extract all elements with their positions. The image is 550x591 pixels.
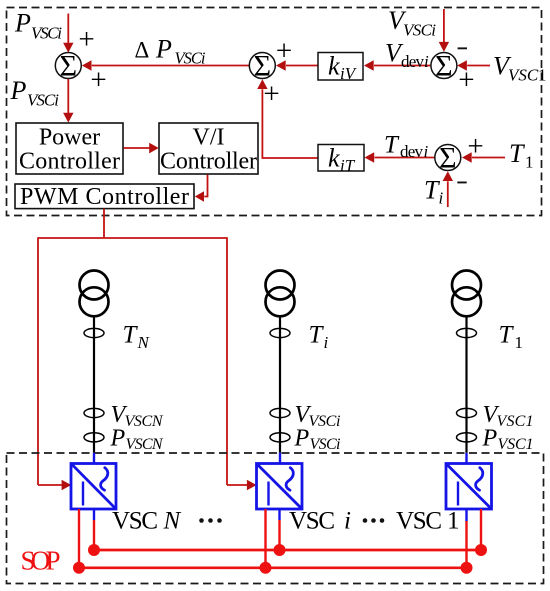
measurement point P_VSCN xyxy=(84,433,104,442)
svg-text:P: P xyxy=(110,426,126,452)
minus sign at S3 top input xyxy=(458,47,467,49)
svg-text:VSCi: VSCi xyxy=(27,91,59,110)
wire kiT output up into S2 bottom xyxy=(257,79,318,158)
svg-text:VSCi: VSCi xyxy=(310,436,341,453)
svg-text:iT: iT xyxy=(340,156,356,175)
wire T_1 into S4 xyxy=(462,152,505,163)
svg-text:T: T xyxy=(509,139,525,168)
measurement point V_VSCN xyxy=(84,408,104,417)
VSC N dc stub to lower bus xyxy=(78,509,80,568)
svg-text:Controller: Controller xyxy=(19,149,120,175)
feeder wire branch 1 xyxy=(465,316,467,453)
gate-feed wire right vertical run xyxy=(226,237,228,485)
svg-text:1: 1 xyxy=(538,66,547,85)
svg-text:VSC: VSC xyxy=(508,66,539,85)
wire Power Controller to V/I Controller xyxy=(124,143,159,154)
label T_i xyxy=(424,176,444,208)
label V_VSCN xyxy=(111,402,164,430)
svg-text:P: P xyxy=(10,76,27,105)
junction dot lower bus at VSC i xyxy=(260,562,272,574)
svg-text:i: i xyxy=(439,189,444,208)
svg-text:VSCi: VSCi xyxy=(31,24,62,43)
junction dot lower bus at VSC N xyxy=(73,562,85,574)
converter VSC N xyxy=(71,464,116,510)
junction dot lower bus at VSC 1 xyxy=(461,562,473,574)
label T_i xyxy=(309,322,329,353)
label P_VSCN xyxy=(110,426,164,454)
svg-text:+: + xyxy=(90,64,106,96)
svg-text:VSCN: VSCN xyxy=(125,413,164,430)
label T_1 xyxy=(509,139,534,172)
svg-text:VSCi: VSCi xyxy=(175,49,206,68)
summer S3 xyxy=(431,50,457,83)
SOP dashed boundary box xyxy=(7,453,544,584)
VSC i dc stub to lower bus xyxy=(264,509,266,568)
label P_VSCi (measured) xyxy=(10,76,60,110)
label P_VSCi branch xyxy=(294,426,341,454)
summer S1 xyxy=(55,50,81,83)
measurement point T_N xyxy=(84,328,104,337)
VSC 1 dc stub to lower bus xyxy=(465,509,467,568)
svg-text:Σ: Σ xyxy=(439,142,456,175)
wire summer S4 output into kiT xyxy=(365,152,435,163)
svg-text:SOP: SOP xyxy=(21,546,61,576)
converter VSC N ac-side stub xyxy=(93,453,95,465)
svg-text:VSC1: VSC1 xyxy=(497,413,534,430)
svg-text:i: i xyxy=(324,333,329,352)
gate-feed wire horizontal run xyxy=(38,237,227,239)
label VSC N xyxy=(112,508,182,535)
svg-text:k: k xyxy=(328,52,340,81)
svg-text:Σ: Σ xyxy=(435,50,452,83)
svg-text:P: P xyxy=(155,35,172,64)
ellipsis dots 2 xyxy=(363,518,385,523)
svg-text:V/I: V/I xyxy=(193,125,225,151)
svg-text:VSC: VSC xyxy=(289,508,335,535)
converter VSC i ac-side stub xyxy=(279,453,281,465)
converter VSC 1 xyxy=(446,464,492,510)
feeder wire branch i xyxy=(279,316,281,453)
control-loop dashed boundary box xyxy=(7,8,542,216)
minus sign at S4 bottom input xyxy=(457,182,466,184)
V/I Controller block xyxy=(159,123,258,175)
label VSC i xyxy=(289,508,351,535)
wire T_i up into S4 bottom xyxy=(443,171,453,207)
converter VSC i xyxy=(257,464,303,510)
VSC N dc stub to upper bus xyxy=(93,509,95,550)
VSC 1 dc stub to upper bus xyxy=(480,509,482,550)
svg-text:+: + xyxy=(263,78,279,110)
measurement point T_1 xyxy=(457,328,477,337)
svg-text:VSCi: VSCi xyxy=(403,21,436,40)
wire V/I Controller down into PWM Controller xyxy=(195,175,208,202)
svg-text:dev: dev xyxy=(401,52,425,71)
label T_1 branch xyxy=(499,322,524,353)
SOP lower dc bus xyxy=(79,566,467,569)
summer S4 xyxy=(435,142,461,175)
svg-text:k: k xyxy=(328,144,340,173)
label P_VSC1 branch xyxy=(482,426,534,454)
svg-text:T: T xyxy=(123,322,139,349)
gate-feed arrow into VSC i xyxy=(227,480,257,490)
svg-text:VSC1: VSC1 xyxy=(498,436,534,453)
label V_devi xyxy=(385,39,429,72)
label VSC 1 xyxy=(396,508,460,535)
label P_VSCi (reference input) xyxy=(14,9,62,43)
gate-feed wire left vertical run xyxy=(37,237,39,485)
svg-text:1: 1 xyxy=(525,153,534,172)
label T_N xyxy=(123,322,151,353)
gate-feed arrow into VSC N xyxy=(38,480,71,490)
wire S1 output down to Power Controller xyxy=(63,79,73,123)
svg-text:i: i xyxy=(424,142,429,161)
transformer T_N symbol xyxy=(80,271,109,317)
svg-text:P: P xyxy=(14,9,31,38)
measurement point P_VSCi xyxy=(270,433,290,442)
transformer T_1 symbol xyxy=(452,271,481,317)
gain block kiV xyxy=(318,52,363,84)
svg-text:i: i xyxy=(424,52,429,71)
svg-text:+: + xyxy=(78,24,94,56)
summer S2 xyxy=(249,50,275,83)
measurement point P_VSC1 xyxy=(457,433,477,442)
svg-text:dev: dev xyxy=(400,142,424,161)
wire P*VSCi input into summer S1 xyxy=(63,14,73,53)
label V_VSCi branch xyxy=(295,402,341,430)
PWM Controller block xyxy=(15,184,194,210)
junction dot upper bus at VSC i xyxy=(274,544,286,556)
svg-text:Power: Power xyxy=(39,125,100,151)
measurement point V_VSC1 xyxy=(457,408,477,417)
svg-text:T: T xyxy=(499,322,515,349)
svg-text:VSC: VSC xyxy=(112,508,158,535)
svg-text:PWM Controller: PWM Controller xyxy=(20,184,189,210)
svg-text:VSC: VSC xyxy=(396,508,442,535)
svg-text:Controller: Controller xyxy=(160,149,257,175)
svg-text:P: P xyxy=(294,426,310,452)
label V_VSC1 branch xyxy=(483,402,534,430)
wire kiV output into S2 xyxy=(276,60,318,71)
svg-text:T: T xyxy=(384,132,400,159)
label T_devi xyxy=(384,132,429,162)
label V_VSCi input xyxy=(388,6,436,40)
converter VSC 1 ac-side stub xyxy=(465,453,467,465)
svg-text:VSCi: VSCi xyxy=(309,413,341,430)
label V_VSC1 xyxy=(493,52,547,85)
wire delta-P from summer S2 into S1 xyxy=(82,60,250,71)
svg-text:1: 1 xyxy=(515,333,524,352)
SOP upper dc bus xyxy=(94,549,481,552)
Power Controller block xyxy=(16,123,123,175)
svg-text:N: N xyxy=(163,508,182,535)
feeder wire branch N xyxy=(93,316,95,453)
label delta P_VSCi xyxy=(135,35,206,68)
VSC i dc stub to upper bus xyxy=(278,509,280,550)
ellipsis dots 1 xyxy=(199,518,222,523)
wire V_VSCi down into summer S3 xyxy=(439,9,449,52)
svg-text:i: i xyxy=(344,508,351,535)
svg-text:1: 1 xyxy=(447,508,460,535)
measurement point T_i xyxy=(270,328,290,337)
gain block kiT xyxy=(318,144,364,176)
svg-text:P: P xyxy=(482,426,498,452)
svg-text:N: N xyxy=(137,333,151,352)
svg-text:VSCN: VSCN xyxy=(126,436,164,453)
junction dot upper bus at VSC 1 xyxy=(475,544,487,556)
wire PWM Controller down to gate-feed bus xyxy=(103,209,105,238)
measurement point V_VSCi xyxy=(270,408,290,417)
svg-text:Σ: Σ xyxy=(60,50,77,83)
transformer T_i symbol xyxy=(266,271,295,317)
svg-text:T: T xyxy=(309,322,325,349)
svg-text:iV: iV xyxy=(340,64,358,83)
wire V_VSC1 into S3 xyxy=(457,60,490,71)
wire summer S3 output into kiV xyxy=(364,60,431,71)
junction dot upper bus at VSC N xyxy=(88,544,100,556)
svg-text:Δ: Δ xyxy=(135,38,150,63)
